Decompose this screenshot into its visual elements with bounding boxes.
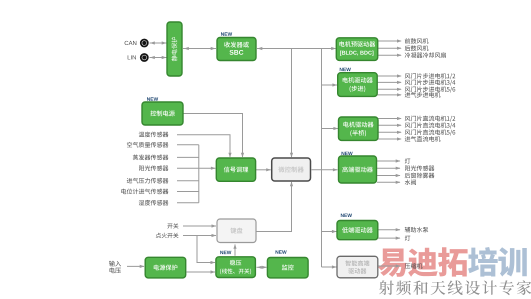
wire: right vertical bus xyxy=(321,49,323,268)
wire: input voltage to power protection xyxy=(127,265,144,267)
wire: smart high-side output xyxy=(378,265,400,267)
label NEW (low-side driver) xyxy=(341,214,352,217)
block: high-side driver xyxy=(339,156,377,183)
block: keypad xyxy=(217,219,256,243)
labels: switches xyxy=(156,223,179,238)
wire: sensor bus vertical xyxy=(198,145,200,203)
wire: stepper driver output xyxy=(378,81,402,83)
wire: signal conditioning to microcontroller xyxy=(256,169,271,171)
wire: half-bridge driver output xyxy=(378,124,401,126)
block: microcontroller xyxy=(272,158,311,181)
label: input voltage xyxy=(109,261,121,274)
wire: sensor row xyxy=(177,191,199,193)
wire: sensor row xyxy=(177,156,199,158)
wire: high-side driver output xyxy=(377,160,400,162)
block: signal conditioning xyxy=(216,158,255,181)
label LIN xyxy=(128,55,136,59)
wire: bus branch to low-side driver xyxy=(322,231,337,233)
block: voltage regulator xyxy=(216,257,256,278)
label NEW (SBC) xyxy=(221,32,232,35)
wire: high-side driver output xyxy=(377,181,400,183)
wire: sensor row xyxy=(177,180,199,182)
wire: bus branch to half-bridge driver xyxy=(322,128,339,130)
wire: half-bridge driver output xyxy=(378,131,401,133)
block: smart high-side driver xyxy=(337,256,378,278)
wire: sensor row xyxy=(177,144,199,146)
wire: stepper driver output xyxy=(378,88,402,90)
block: motor driver stepper xyxy=(338,73,378,97)
block: power protection xyxy=(145,257,186,278)
labels: outputs xyxy=(405,38,456,269)
node CAN connector xyxy=(141,40,148,47)
arrowheads xyxy=(140,39,402,273)
wire: ignition branch to regulator xyxy=(197,236,215,263)
block: supply xyxy=(142,102,183,125)
wire: high-side driver output xyxy=(377,175,400,177)
wire: sensor bus to signal conditioning xyxy=(199,167,216,169)
wire: bus branch to smart high-side driver xyxy=(322,266,337,268)
wire: pre-driver output xyxy=(378,47,401,49)
label CAN xyxy=(125,41,137,45)
label NEW (supply) xyxy=(147,97,158,100)
wire: sensor row xyxy=(177,202,199,204)
block: motor driver half-bridge xyxy=(339,117,379,140)
label NEW (regulator) xyxy=(220,251,231,254)
wire: protection to transceiver/SBC xyxy=(183,48,216,50)
wire: regulator to supervision xyxy=(257,266,267,268)
wire: regulator to keypad xyxy=(234,245,236,256)
wire: keypad to microcontroller xyxy=(257,182,292,232)
labels: sensors xyxy=(121,132,168,206)
wire: low-side driver output xyxy=(378,229,400,231)
wire: microcontroller to high-side driver xyxy=(312,169,338,171)
label NEW (stepper driver) xyxy=(340,68,351,71)
block: supervision xyxy=(267,258,308,278)
wire: bus drop to microcontroller top xyxy=(291,49,293,158)
block: ESD protection (vertical) xyxy=(167,22,182,76)
watermark xyxy=(378,247,531,295)
wire: high-side driver output xyxy=(377,167,400,169)
label NEW (supervision) xyxy=(276,250,287,253)
wire: SBC to motor pre-driver bus xyxy=(257,48,336,50)
wire: sensor row xyxy=(177,167,199,169)
wire: LIN connector to protection xyxy=(150,57,168,59)
block: low-side driver xyxy=(337,221,378,240)
wire: ignition switch to keypad xyxy=(183,235,216,237)
wire: stepper driver output xyxy=(378,75,402,77)
wire: low-side driver output xyxy=(378,237,400,239)
wire: supply to signal conditioning xyxy=(184,114,243,158)
wire: pre-driver output xyxy=(378,40,401,42)
block: motor pre-driver xyxy=(336,38,377,61)
wire: half-bridge driver output xyxy=(378,118,401,120)
wire: half-bridge driver output xyxy=(378,138,401,140)
wire: bus branch to stepper driver xyxy=(322,84,338,86)
label NEW (high-side driver) xyxy=(342,152,353,155)
wire: power protection to regulator xyxy=(187,271,216,273)
node LIN connector xyxy=(141,54,148,61)
block: transceiver or SBC xyxy=(217,38,256,61)
wire: pre-driver output xyxy=(378,54,401,56)
wire: switch to keypad xyxy=(183,225,216,227)
wire: CAN connector to protection xyxy=(150,42,168,44)
wire: stepper driver output xyxy=(378,94,402,96)
wire: temperature sensor to signal conditioning xyxy=(177,135,230,157)
